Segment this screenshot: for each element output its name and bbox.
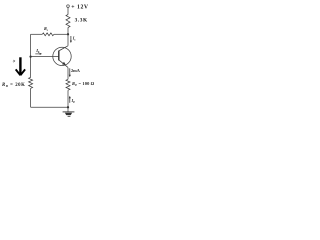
resistor RE 100 ohm — [66, 79, 70, 90]
node ground junction — [67, 106, 69, 108]
wire base lead — [31, 56, 59, 58]
wire emitter down — [67, 68, 69, 80]
wire Rs to collector node — [54, 33, 68, 35]
wire bottom rail — [31, 106, 68, 108]
svg-text:RB = 20K: RB = 20K — [2, 83, 25, 88]
wire supply to Rc — [67, 8, 69, 15]
wire Rc to collector — [67, 28, 69, 46]
ground — [63, 111, 75, 113]
node collector junction — [67, 33, 69, 35]
resistor Rc 3.3K — [66, 15, 70, 28]
resistor Rs — [42, 33, 54, 36]
wire top left segment — [31, 33, 43, 35]
transistor Q1 base bar — [58, 51, 60, 61]
svg-text:+ 12V: + 12V — [71, 4, 89, 10]
svg-text:(1: (1 — [13, 59, 16, 63]
transistor Q1 emitter arrowhead — [62, 62, 66, 65]
transistor Q1 collector lead — [59, 46, 68, 51]
current arrow I1 thick — [19, 57, 21, 75]
wire RB to bottom — [30, 88, 32, 107]
svg-text:2mA: 2mA — [71, 68, 81, 73]
current arrow Ib — [35, 53, 40, 55]
supply terminal +12V — [67, 5, 70, 8]
current arrow Ic — [70, 36, 72, 41]
wire left rail — [30, 34, 32, 77]
svg-text:3.3K: 3.3K — [75, 18, 88, 24]
current arrow 2mA — [69, 68, 71, 75]
transistor Q1 circle — [53, 47, 71, 65]
node base junction — [29, 55, 31, 57]
resistor RB 20K — [29, 77, 33, 88]
transistor Q1 emitter lead — [59, 60, 68, 68]
wire RE to ground — [67, 90, 69, 112]
current arrow IE — [69, 98, 71, 103]
